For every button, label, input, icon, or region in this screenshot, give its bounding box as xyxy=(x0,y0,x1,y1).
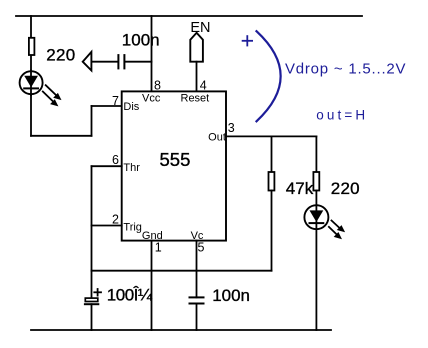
wire: 47k branch lower xyxy=(271,191,273,271)
svg-text:555: 555 xyxy=(160,149,191,170)
svg-text:7: 7 xyxy=(112,94,119,108)
capacitor C-bottom 100n xyxy=(190,297,204,303)
resistor 47k xyxy=(269,172,275,191)
LED D-left emission arrow 2 xyxy=(43,92,59,107)
capacitor C-electrolytic 100u xyxy=(85,298,98,304)
svg-text:Vcc: Vcc xyxy=(142,93,161,105)
svg-text:Vdrop ~ 1.5...2V: Vdrop ~ 1.5...2V xyxy=(285,61,406,78)
svg-text:out=H: out=H xyxy=(316,107,368,122)
LED D-right emission arrow 1 xyxy=(332,221,346,233)
svg-text:220: 220 xyxy=(46,45,75,64)
op-amp/timer IC U1 555 body xyxy=(122,91,226,240)
svg-text:Thr: Thr xyxy=(123,162,140,174)
svg-text:6: 6 xyxy=(112,153,119,167)
wire: bottom ground rail xyxy=(31,329,331,331)
svg-text:5: 5 xyxy=(198,241,205,255)
wire: vertical up to Dis line xyxy=(91,106,93,136)
svg-text:8: 8 xyxy=(154,78,161,92)
svg-text:100Î¼: 100Î¼ xyxy=(107,286,153,305)
wire: top rail down to Vcc pin 8 xyxy=(151,16,153,91)
wire: bottom horizontal node (Thr/Trig to 47k) xyxy=(92,270,272,272)
wire: electrolytic to bottom rail xyxy=(91,304,93,330)
svg-text:Out: Out xyxy=(208,132,226,144)
resistor 220 (top-left) xyxy=(29,38,35,55)
wire: cap to Vcc line xyxy=(125,61,151,63)
annotation brace arc (blue) xyxy=(257,31,281,121)
connector pin EN (plug symbol) xyxy=(190,33,203,62)
LED D-right emission arrow 2 xyxy=(329,227,342,239)
wire: Thr/Trig vertical down xyxy=(91,166,93,271)
wire: pin 1 Gnd down to bottom rail xyxy=(151,241,153,330)
wire: resistor to LED D-left xyxy=(30,56,32,71)
capacitor C-top 100n xyxy=(118,55,124,68)
svg-text:1: 1 xyxy=(155,241,162,255)
LED D-left emission arrow 1 xyxy=(46,85,62,100)
wire: pin 5 Vc down to cap xyxy=(196,241,198,298)
svg-text:Trig: Trig xyxy=(123,222,142,234)
wire: cap 100n to bottom rail xyxy=(196,304,198,331)
wire: 220 resistor to LED D-right xyxy=(315,191,317,206)
wire: top supply rail xyxy=(16,15,362,17)
annotation plus sign (blue) xyxy=(243,36,253,45)
svg-text:47k: 47k xyxy=(286,179,314,198)
LED D-left xyxy=(20,71,43,96)
svg-text:2: 2 xyxy=(112,212,119,226)
wire: node down to electrolytic cap xyxy=(91,271,93,298)
wire: pin 7 Dis to IC xyxy=(92,105,122,107)
svg-text:100n: 100n xyxy=(122,30,160,49)
capacitor C-electrolytic 100u polarity plus xyxy=(94,289,101,296)
wire: 220 branch upper xyxy=(315,136,317,172)
wire: LED D-left down xyxy=(30,95,32,136)
svg-text:EN: EN xyxy=(190,20,210,36)
wire: EN to pin 4 Reset xyxy=(196,62,198,92)
resistor 220 (right) xyxy=(313,172,319,191)
svg-text:3: 3 xyxy=(228,121,235,135)
svg-text:4: 4 xyxy=(200,78,207,92)
svg-text:Dis: Dis xyxy=(123,101,139,113)
wire: arrow to cap xyxy=(91,61,117,63)
wire: pin 3 Out horizontal xyxy=(226,135,316,137)
svg-text:Reset: Reset xyxy=(181,93,210,105)
svg-text:220: 220 xyxy=(331,179,360,198)
wire: 47k branch upper xyxy=(271,136,273,172)
wire: LED bottom horizontal to node xyxy=(31,135,92,137)
LED D-right xyxy=(304,205,328,330)
wire: pin 2 Trig to IC xyxy=(92,225,122,227)
svg-text:100n: 100n xyxy=(212,286,250,305)
wire: pin 6 Thr to IC xyxy=(92,165,122,167)
wire: top rail to resistor R-left xyxy=(30,16,32,38)
connection arrow symbol (points left) xyxy=(83,52,92,71)
